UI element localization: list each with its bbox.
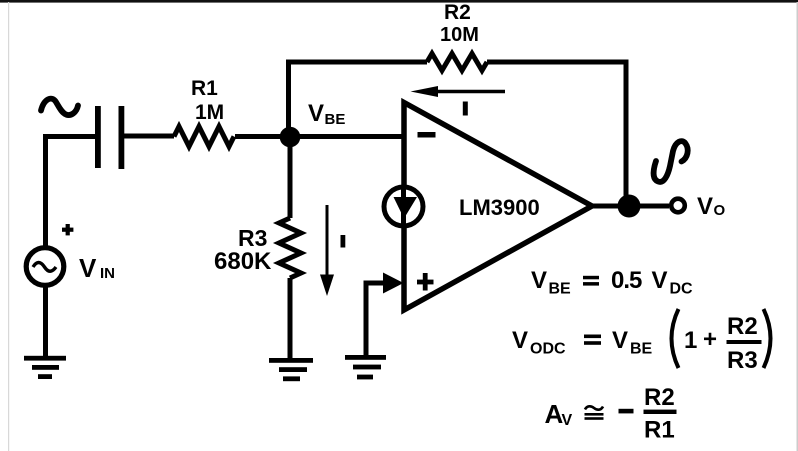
wire Vin to ground	[43, 285, 48, 357]
svg-text:IN: IN	[100, 265, 115, 282]
svg-text:DC: DC	[670, 281, 694, 298]
plus input sign	[417, 280, 434, 285]
current source symbol inside op-amp	[384, 187, 423, 226]
svg-text:V: V	[531, 267, 547, 294]
plus sign of Vin	[62, 228, 73, 232]
resistor R3 vertical	[279, 218, 301, 278]
svg-text:V: V	[652, 267, 668, 294]
svg-text:R1: R1	[644, 417, 675, 444]
wire ground to plus input	[366, 283, 385, 357]
arrow into plus input	[383, 273, 404, 294]
current arrow I beside R3	[326, 205, 329, 276]
svg-text:R2: R2	[644, 384, 675, 411]
minus input sign	[418, 132, 436, 138]
svg-text:LM3900: LM3900	[459, 195, 540, 220]
output AC signal symbol	[654, 141, 688, 182]
svg-text:BE: BE	[549, 281, 572, 298]
svg-text:V: V	[79, 253, 97, 283]
wire top feedback right segment and down to output	[487, 62, 626, 206]
current arrow I above op-amp	[434, 90, 505, 94]
svg-text:V: V	[512, 327, 528, 354]
source Vin circle	[26, 248, 64, 286]
resistor R2	[427, 54, 487, 71]
resistor R1	[174, 127, 234, 147]
svg-text:V: V	[697, 193, 713, 220]
wire capacitor to R1	[124, 134, 174, 139]
svg-text:V: V	[562, 412, 573, 429]
svg-text:0.5: 0.5	[611, 267, 642, 294]
wire VBE node down to R3	[288, 137, 293, 218]
label I (beside R3)	[341, 235, 346, 248]
svg-text:1M: 1M	[195, 101, 224, 124]
svg-text:O: O	[714, 202, 726, 219]
node VBE junction dot	[280, 127, 301, 148]
svg-text:R2: R2	[444, 1, 471, 24]
label I (top)	[463, 102, 468, 116]
svg-text:+: +	[703, 326, 717, 353]
svg-text:BE: BE	[325, 111, 346, 128]
svg-text:R1: R1	[191, 77, 218, 100]
wire R1 to op-amp minus input	[235, 134, 403, 139]
svg-text:680K: 680K	[214, 248, 272, 275]
AC input signal symbol	[41, 99, 78, 115]
svg-text:V: V	[612, 327, 628, 354]
coupling capacitor	[95, 106, 101, 168]
wire VBE node up to feedback	[286, 60, 291, 140]
equation line 2: VODC = VBE (1 + R2/R3)	[512, 309, 771, 374]
ground for Vin	[24, 356, 66, 361]
output terminal open circle	[671, 199, 685, 213]
node output junction dot	[618, 195, 641, 218]
svg-text:1: 1	[684, 327, 697, 354]
equation line 3: AV = -R2/R1	[545, 384, 677, 444]
ground for R3	[269, 358, 313, 363]
svg-text:BE: BE	[630, 341, 653, 358]
wire top feedback left segment	[286, 60, 427, 65]
equation line 1: VBE = 0.5 VDC	[531, 267, 693, 298]
svg-text:R3: R3	[727, 347, 758, 374]
ground for plus input	[345, 355, 386, 360]
svg-text:ODC: ODC	[530, 341, 566, 358]
wire input vertical down to Vin source	[43, 134, 48, 247]
wire input horizontal to capacitor	[43, 134, 95, 139]
wire R3 to ground	[288, 278, 293, 358]
op-amp U1 triangle	[404, 103, 592, 311]
wire op-amp output to terminal	[592, 204, 669, 209]
svg-text:V: V	[308, 100, 324, 127]
svg-text:R2: R2	[727, 313, 758, 340]
svg-text:10M: 10M	[440, 24, 479, 46]
